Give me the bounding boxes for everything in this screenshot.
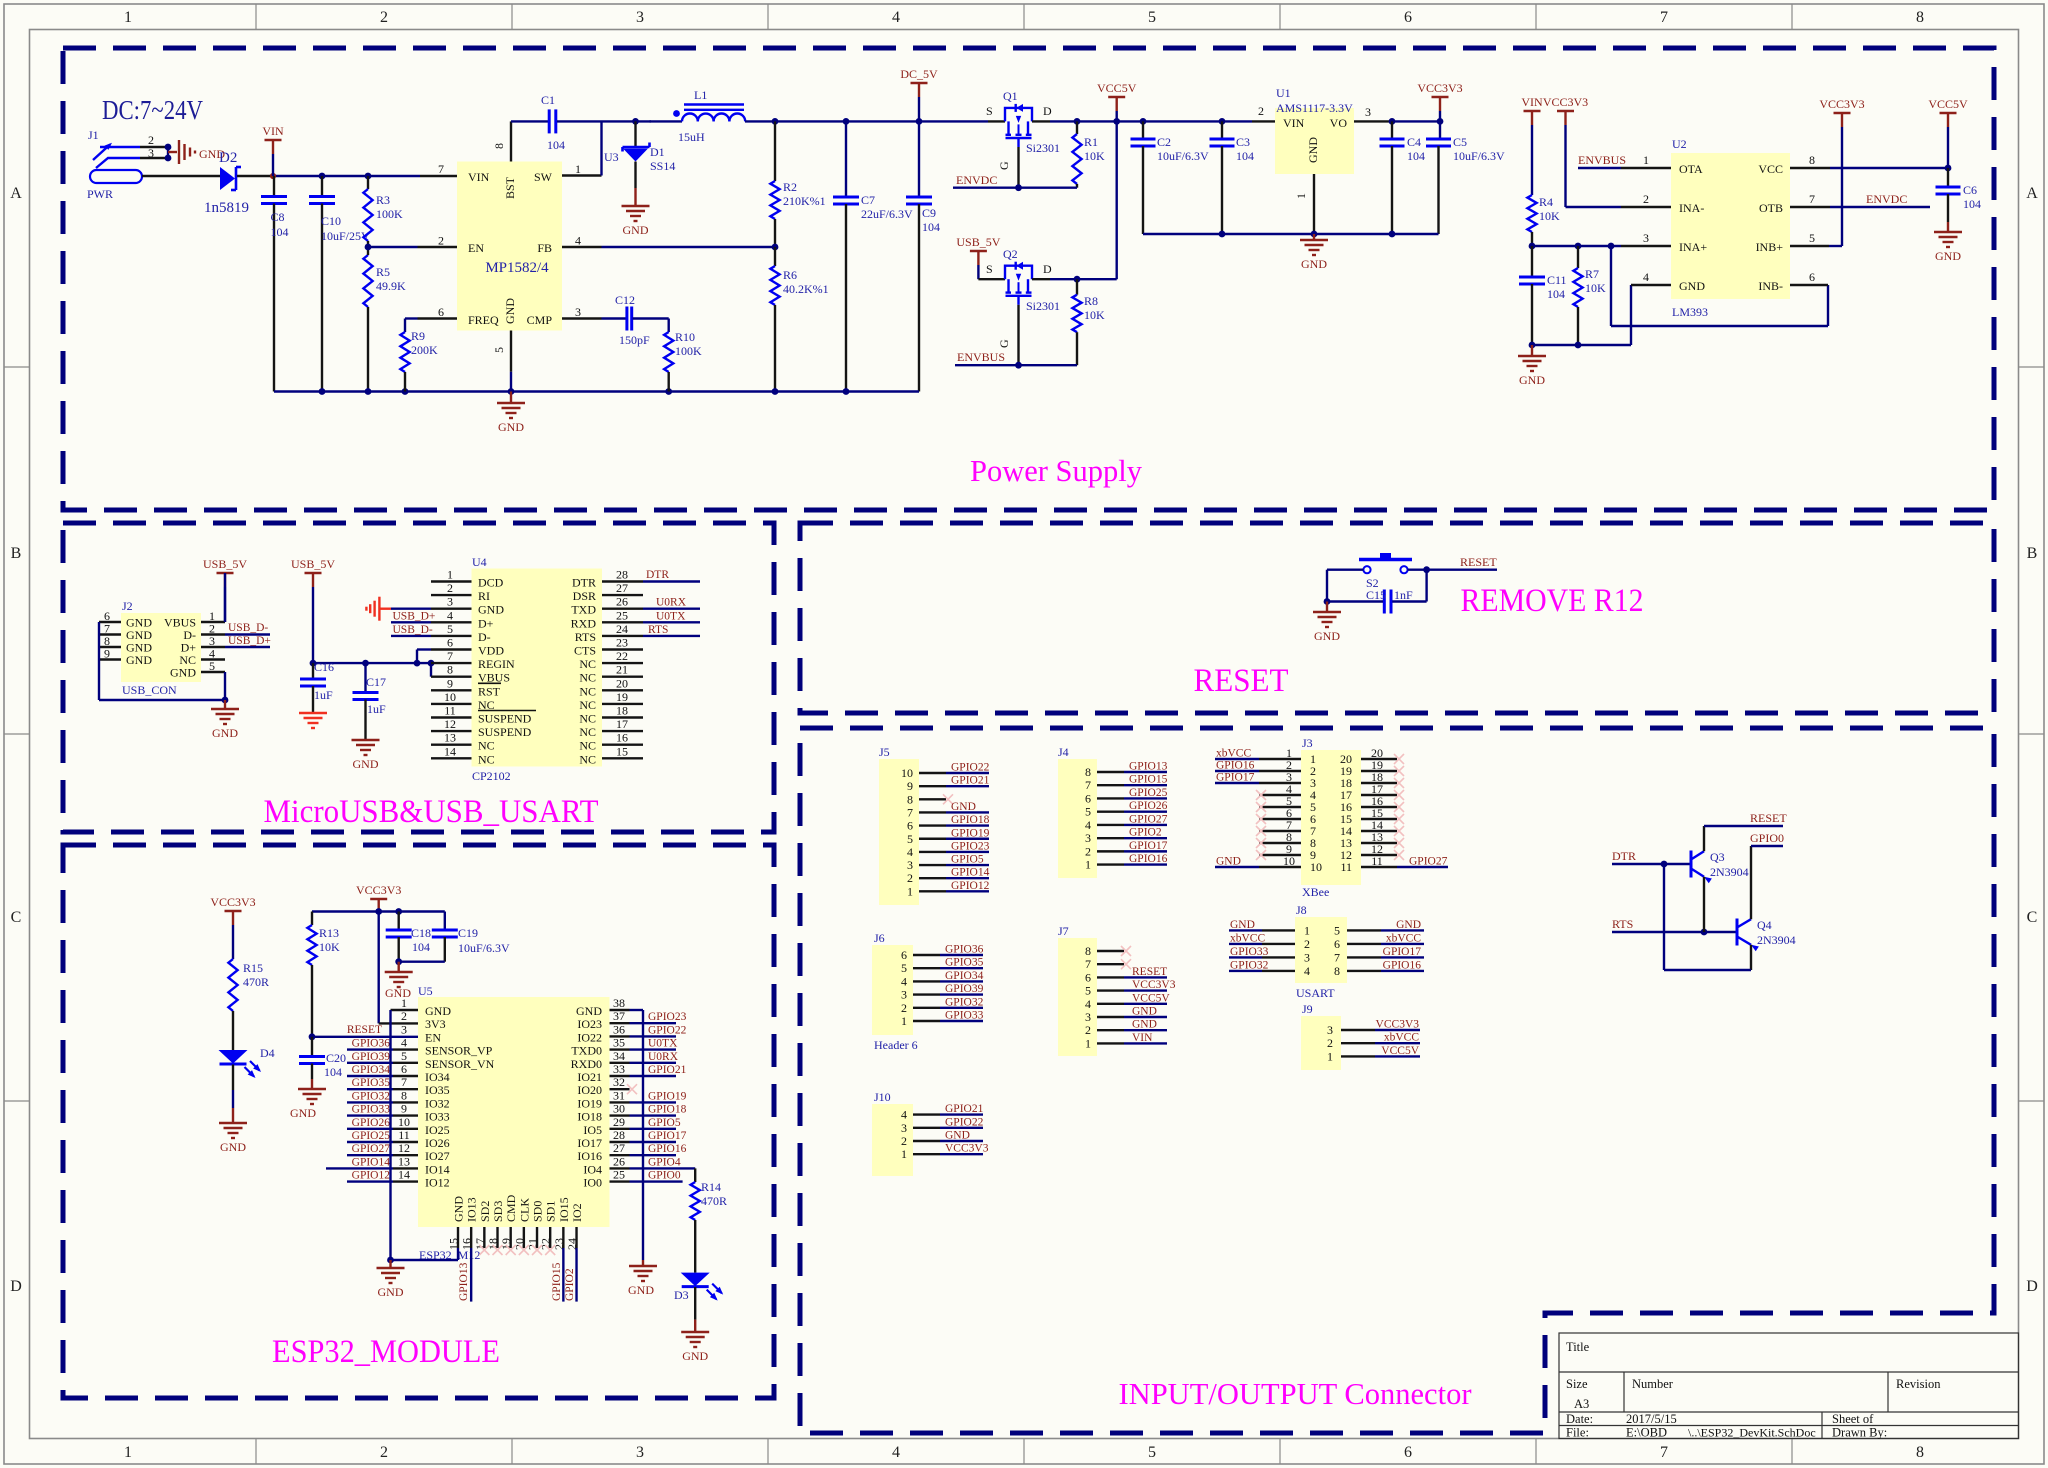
svg-text:GND: GND <box>1216 856 1241 868</box>
power port VCC3V3 (U5) <box>356 883 401 912</box>
svg-text:IO35: IO35 <box>425 1083 450 1097</box>
svg-text:C: C <box>11 909 22 926</box>
svg-text:USB_CON: USB_CON <box>122 683 177 697</box>
resistor R8 10K <box>1072 279 1105 365</box>
connector J8 USART <box>1229 903 1424 1000</box>
svg-text:IO5: IO5 <box>583 1123 602 1137</box>
svg-text:GND: GND <box>1301 257 1327 271</box>
svg-text:GPIO34: GPIO34 <box>352 1064 391 1076</box>
svg-text:D: D <box>10 1278 22 1295</box>
svg-text:1: 1 <box>901 1014 907 1028</box>
svg-text:C15: C15 <box>1366 588 1386 602</box>
svg-text:GPIO14: GPIO14 <box>352 1156 391 1168</box>
svg-text:3: 3 <box>1085 831 1091 845</box>
svg-text:1: 1 <box>1327 1049 1333 1063</box>
svg-text:GPIO17: GPIO17 <box>1383 946 1422 958</box>
svg-text:GND: GND <box>452 1196 466 1222</box>
svg-text:SW: SW <box>534 170 553 184</box>
svg-text:C8: C8 <box>271 210 285 224</box>
svg-text:VCC: VCC <box>1758 162 1783 176</box>
svg-text:6: 6 <box>1809 270 1815 284</box>
svg-text:6: 6 <box>438 305 444 319</box>
svg-text:J6: J6 <box>874 931 885 945</box>
svg-text:DCD: DCD <box>478 576 504 590</box>
svg-text:2: 2 <box>447 581 453 595</box>
svg-text:C4: C4 <box>1407 135 1421 149</box>
svg-text:CP2102: CP2102 <box>472 769 511 783</box>
net label RTS <box>643 624 700 636</box>
svg-text:J5: J5 <box>879 745 890 759</box>
net label GPIO5 (U5 right) <box>630 1117 681 1129</box>
ground symbol at J1 <box>179 140 225 164</box>
resistor R4 10K <box>1527 195 1560 246</box>
svg-text:Drawn By:: Drawn By: <box>1832 1426 1887 1440</box>
svg-text:GND: GND <box>1519 373 1545 387</box>
svg-text:D: D <box>1043 262 1052 276</box>
capacitor C6 104 <box>1934 168 1981 263</box>
svg-text:25: 25 <box>616 608 628 622</box>
wire: U1 ground bus <box>1143 231 1439 238</box>
svg-text:5: 5 <box>209 659 215 673</box>
net label GPIO25 (U5 left) <box>347 1130 393 1142</box>
svg-text:18: 18 <box>486 1238 500 1250</box>
svg-text:8: 8 <box>1334 964 1340 978</box>
svg-text:18: 18 <box>616 704 628 718</box>
svg-text:VCC5V: VCC5V <box>1928 97 1968 111</box>
net label GPIO12 (U5 left) <box>347 1170 393 1182</box>
svg-text:IO21: IO21 <box>577 1070 602 1084</box>
net label GPIO22 (U5 right) <box>630 1024 687 1036</box>
svg-text:GPIO36: GPIO36 <box>945 944 984 956</box>
svg-text:IO13: IO13 <box>465 1197 479 1222</box>
svg-text:GPIO12: GPIO12 <box>951 880 990 892</box>
svg-text:5: 5 <box>1334 923 1340 937</box>
power port VCC3V3 (INA-) <box>1543 95 1588 207</box>
svg-text:VO: VO <box>1330 116 1348 130</box>
svg-text:10K: 10K <box>1585 281 1606 295</box>
svg-text:FB: FB <box>537 241 552 255</box>
ground symbol J2 <box>211 700 239 740</box>
resistor R7 10K <box>1573 246 1606 345</box>
svg-text:3V3: 3V3 <box>425 1017 446 1031</box>
svg-text:VCC3V3: VCC3V3 <box>1543 95 1588 109</box>
svg-text:4: 4 <box>1304 964 1310 978</box>
svg-text:XBee: XBee <box>1302 885 1329 899</box>
svg-text:VCC3V3: VCC3V3 <box>1819 97 1864 111</box>
svg-text:R15: R15 <box>243 961 263 975</box>
wire: 3V3 rail at U5 <box>312 908 445 1023</box>
svg-text:4: 4 <box>901 974 907 988</box>
net label GPIO39 (U5 left) <box>347 1051 393 1063</box>
connector J4 <box>1058 745 1168 878</box>
svg-text:8: 8 <box>492 143 506 149</box>
resistor R6 40.2K <box>770 247 828 392</box>
svg-text:ENVDC: ENVDC <box>956 173 997 187</box>
svg-text:6: 6 <box>1404 1444 1412 1461</box>
svg-text:SD3: SD3 <box>491 1201 505 1222</box>
section box: Power Supply <box>63 48 1994 510</box>
capacitor C20 104 <box>299 1037 346 1089</box>
svg-text:VCC3V3: VCC3V3 <box>356 883 401 897</box>
svg-text:VIN: VIN <box>1132 1032 1153 1044</box>
svg-text:RXD: RXD <box>571 616 597 630</box>
svg-text:EN: EN <box>468 241 484 255</box>
svg-text:GPIO22: GPIO22 <box>951 762 990 774</box>
svg-text:3: 3 <box>901 988 907 1002</box>
svg-text:Sheet of: Sheet of <box>1832 1412 1874 1426</box>
comparator U2 LM393 <box>1621 137 1830 319</box>
svg-text:VCC3V3: VCC3V3 <box>210 895 255 909</box>
svg-text:5: 5 <box>401 1049 407 1063</box>
net label GPIO16 (U5 right) <box>630 1143 687 1155</box>
inductor L1 15uH <box>650 88 746 144</box>
svg-text:4: 4 <box>901 1108 907 1122</box>
svg-text:AMS1117-3.3V: AMS1117-3.3V <box>1276 101 1353 115</box>
svg-text:GND: GND <box>1132 1019 1157 1031</box>
svg-text:4: 4 <box>907 845 913 859</box>
no-connect bottom pin 19 <box>506 1245 516 1255</box>
svg-text:A: A <box>2026 185 2038 202</box>
svg-text:CTS: CTS <box>574 644 596 658</box>
svg-text:GPIO16: GPIO16 <box>1129 853 1168 865</box>
svg-text:1: 1 <box>124 1444 132 1461</box>
svg-text:6: 6 <box>401 1062 407 1076</box>
svg-text:C6: C6 <box>1963 183 1977 197</box>
svg-text:J4: J4 <box>1058 745 1069 759</box>
wire: U5 pin38 ground <box>630 1010 644 1266</box>
svg-text:IO4: IO4 <box>583 1162 602 1176</box>
svg-text:8: 8 <box>1085 944 1091 958</box>
svg-text:SENSOR_VN: SENSOR_VN <box>425 1057 495 1071</box>
svg-text:USB_D-: USB_D- <box>228 622 268 634</box>
wire: pin15 gnd stub <box>457 1248 459 1260</box>
svg-text:R14: R14 <box>701 1180 721 1194</box>
svg-text:D-: D- <box>478 630 491 644</box>
capacitor C18 104 <box>386 912 431 966</box>
power port USB_5V (Q2) <box>956 235 1000 279</box>
svg-text:SD2: SD2 <box>478 1201 492 1222</box>
wire: INA+ divider node <box>1529 243 1621 250</box>
svg-text:GND: GND <box>220 1140 246 1154</box>
svg-text:35: 35 <box>613 1036 625 1050</box>
svg-text:IO25: IO25 <box>425 1123 450 1137</box>
svg-text:8: 8 <box>1809 153 1815 167</box>
resistor R3 100K <box>363 176 403 247</box>
svg-text:ENVBUS: ENVBUS <box>957 350 1005 364</box>
svg-text:Header 6: Header 6 <box>874 1038 918 1052</box>
svg-text:DTR: DTR <box>646 569 669 581</box>
no-connect bottom pin 22 <box>545 1245 555 1255</box>
net label USB_D+ (CP2102) <box>391 610 435 622</box>
svg-text:4: 4 <box>892 1444 900 1461</box>
svg-text:INA-: INA- <box>1679 201 1704 215</box>
svg-text:SS14: SS14 <box>650 159 675 173</box>
svg-text:12: 12 <box>444 717 456 731</box>
svg-text:GPIO17: GPIO17 <box>1129 840 1168 852</box>
capacitor C15 1nF <box>1366 588 1413 614</box>
resistor R15 470R <box>228 959 269 1050</box>
svg-text:30: 30 <box>613 1102 625 1116</box>
svg-text:GPIO18: GPIO18 <box>648 1104 687 1116</box>
svg-text:GND: GND <box>478 603 504 617</box>
power port DC_5V <box>900 67 938 121</box>
svg-text:6: 6 <box>1085 970 1091 984</box>
svg-text:100K: 100K <box>675 344 702 358</box>
svg-text:4: 4 <box>892 9 900 26</box>
power port USB_5V (J2) <box>203 557 247 622</box>
power port VIN (comparator) <box>1521 95 1543 195</box>
svg-text:G: G <box>997 339 1011 348</box>
svg-text:104: 104 <box>547 138 565 152</box>
svg-text:U0RX: U0RX <box>656 597 687 609</box>
net label U0TX (U5 right) <box>630 1038 679 1050</box>
svg-text:S: S <box>986 104 993 118</box>
svg-text:D+: D+ <box>478 616 494 630</box>
svg-text:J3: J3 <box>1302 736 1313 750</box>
svg-text:B: B <box>11 545 22 562</box>
svg-text:DTR: DTR <box>572 576 596 590</box>
svg-text:Q3: Q3 <box>1710 850 1725 864</box>
svg-text:7: 7 <box>401 1075 407 1089</box>
svg-text:NC: NC <box>579 671 596 685</box>
svg-text:GND: GND <box>353 757 379 771</box>
svg-text:13: 13 <box>398 1154 410 1168</box>
svg-text:11: 11 <box>398 1128 410 1142</box>
svg-text:VCC5V: VCC5V <box>1132 992 1170 1004</box>
svg-text:GPIO0: GPIO0 <box>1750 831 1784 845</box>
connector J9 <box>1301 1002 1420 1070</box>
svg-text:GPIO18: GPIO18 <box>951 814 990 826</box>
svg-text:INB+: INB+ <box>1756 240 1784 254</box>
svg-text:5: 5 <box>1085 984 1091 998</box>
svg-text:10: 10 <box>1283 854 1295 868</box>
svg-text:J2: J2 <box>122 599 133 613</box>
net label USB_D+ (J2) <box>225 635 271 647</box>
connector J5 <box>879 745 990 905</box>
svg-text:GPIO39: GPIO39 <box>352 1051 391 1063</box>
svg-text:R13: R13 <box>319 926 339 940</box>
no-connect bottom pin 21 <box>532 1245 542 1255</box>
svg-text:xbVCC: xbVCC <box>1216 748 1251 760</box>
svg-text:10: 10 <box>901 766 913 780</box>
svg-text:J8: J8 <box>1296 903 1307 917</box>
net label DTR <box>1612 849 1691 867</box>
svg-text:GPIO12: GPIO12 <box>352 1170 391 1182</box>
svg-text:1: 1 <box>907 884 913 898</box>
svg-text:VCC5V: VCC5V <box>1097 81 1137 95</box>
svg-text:GPIO23: GPIO23 <box>648 1011 687 1023</box>
power port VCC5V (U2) <box>1928 97 1968 168</box>
svg-text:GPIO36: GPIO36 <box>352 1038 391 1050</box>
svg-text:VCC3V3: VCC3V3 <box>1417 81 1462 95</box>
svg-text:R9: R9 <box>411 329 425 343</box>
svg-text:GND: GND <box>1935 249 1961 263</box>
ground symbol S2 <box>1313 602 1341 644</box>
net label U0RX <box>643 597 700 609</box>
svg-text:150pF: 150pF <box>619 333 650 347</box>
svg-text:1: 1 <box>1304 923 1310 937</box>
svg-text:U0RX: U0RX <box>648 1051 679 1063</box>
svg-text:IO0: IO0 <box>583 1176 602 1190</box>
svg-text:IO18: IO18 <box>577 1110 602 1124</box>
svg-text:IO26: IO26 <box>425 1136 450 1150</box>
svg-text:U5: U5 <box>418 984 433 998</box>
svg-text:IO32: IO32 <box>425 1096 450 1110</box>
svg-text:3: 3 <box>1643 231 1649 245</box>
svg-text:3: 3 <box>1304 950 1310 964</box>
svg-text:GPIO32: GPIO32 <box>1230 959 1269 971</box>
svg-text:C2: C2 <box>1157 135 1171 149</box>
svg-text:GPIO22: GPIO22 <box>648 1024 687 1036</box>
wire: U5 pin1 ground <box>387 1010 458 1268</box>
svg-text:2017/5/15: 2017/5/15 <box>1626 1412 1677 1426</box>
svg-text:11: 11 <box>444 704 456 718</box>
svg-text:210K%1: 210K%1 <box>783 194 826 208</box>
svg-text:28: 28 <box>613 1128 625 1142</box>
capacitor C9 104 <box>906 121 940 391</box>
svg-text:DSR: DSR <box>573 589 596 603</box>
net label USB_D- (CP2102) <box>391 624 433 636</box>
wire: reset loop <box>1324 566 1497 605</box>
svg-text:R6: R6 <box>783 268 797 282</box>
net label ENVDC (U2 out) <box>1830 192 1930 207</box>
svg-text:R8: R8 <box>1084 294 1098 308</box>
svg-text:104: 104 <box>1547 287 1565 301</box>
svg-text:CMD: CMD <box>504 1194 518 1222</box>
svg-text:U1: U1 <box>1276 86 1291 100</box>
net label ENVBUS (U2 in) <box>1578 153 1626 168</box>
svg-text:IO19: IO19 <box>577 1096 602 1110</box>
svg-text:Si2301: Si2301 <box>1026 141 1060 155</box>
svg-text:GPIO39: GPIO39 <box>945 983 984 995</box>
svg-text:IO15: IO15 <box>557 1197 571 1222</box>
net label GPIO4 (U5) <box>630 1156 696 1182</box>
svg-text:9: 9 <box>401 1102 407 1116</box>
svg-text:3: 3 <box>636 1444 644 1461</box>
wire: INA- to VCC3V3 <box>1566 206 1622 208</box>
svg-text:2: 2 <box>901 1134 907 1148</box>
wire: FB node <box>602 244 779 251</box>
IC U4 CP2102 <box>431 555 643 783</box>
svg-text:USB_5V: USB_5V <box>291 557 335 571</box>
svg-text:G: G <box>997 161 1011 170</box>
svg-text:R10: R10 <box>675 330 695 344</box>
wire: U1 output <box>1389 118 1444 125</box>
svg-text:2: 2 <box>901 1001 907 1015</box>
svg-text:U0TX: U0TX <box>648 1038 678 1050</box>
svg-text:2N3904: 2N3904 <box>1757 933 1796 947</box>
ground symbol C20 <box>290 1089 326 1120</box>
net label GPIO36 (U5 left) <box>347 1038 393 1050</box>
svg-text:C3: C3 <box>1236 135 1250 149</box>
svg-text:CLK: CLK <box>517 1198 531 1222</box>
svg-text:100K: 100K <box>376 207 403 221</box>
svg-text:GPIO32: GPIO32 <box>945 996 984 1008</box>
ground symbol CP2102 pin3 (red, sideways) <box>366 597 431 621</box>
svg-text:GND: GND <box>1306 137 1320 163</box>
svg-text:USB_5V: USB_5V <box>203 557 247 571</box>
svg-text:MicroUSB&USB_USART: MicroUSB&USB_USART <box>264 794 599 830</box>
svg-text:26: 26 <box>616 595 628 609</box>
svg-text:GPIO16: GPIO16 <box>1383 959 1422 971</box>
svg-text:7: 7 <box>1809 192 1815 206</box>
svg-text:1: 1 <box>1643 153 1649 167</box>
svg-text:GPIO0: GPIO0 <box>648 1170 681 1182</box>
svg-text:3: 3 <box>907 858 913 872</box>
svg-text:104: 104 <box>1963 197 1981 211</box>
wire: boost node to inductor <box>602 120 652 122</box>
svg-text:200K: 200K <box>411 343 438 357</box>
resistor R10 100K <box>664 319 702 392</box>
svg-text:GND: GND <box>628 1283 654 1297</box>
svg-text:C12: C12 <box>615 293 635 307</box>
svg-text:4: 4 <box>447 608 453 622</box>
resistor R2 210K <box>770 121 825 247</box>
net label RESET (Q3) <box>1704 811 1787 826</box>
svg-text:GND: GND <box>290 1106 316 1120</box>
svg-text:\..\ESP32_DevKit.SchDoc: \..\ESP32_DevKit.SchDoc <box>1688 1426 1816 1440</box>
svg-text:GPIO16: GPIO16 <box>648 1143 687 1155</box>
svg-text:VCC3V3: VCC3V3 <box>945 1143 989 1155</box>
svg-text:GND: GND <box>945 1130 970 1142</box>
net label U0RX (U5 right) <box>630 1051 679 1063</box>
svg-text:GND: GND <box>1396 919 1421 931</box>
svg-text:2: 2 <box>438 234 444 248</box>
svg-text:DC:7~24V: DC:7~24V <box>102 95 203 125</box>
svg-text:2: 2 <box>1085 844 1091 858</box>
wire: 5V switch rail <box>745 118 988 125</box>
svg-text:A3: A3 <box>1574 1397 1589 1411</box>
svg-text:1: 1 <box>575 162 581 176</box>
power port VCC3V3 (U1 out) <box>1417 81 1462 121</box>
svg-text:8: 8 <box>1085 765 1091 779</box>
section box: RESET <box>800 523 1994 713</box>
svg-text:EN: EN <box>425 1030 441 1044</box>
svg-text:GPIO23: GPIO23 <box>951 840 990 852</box>
section box: INPUT/OUTPUT Connector <box>800 728 1994 1433</box>
svg-text:J1: J1 <box>88 128 99 142</box>
svg-text:SD1: SD1 <box>544 1201 558 1222</box>
svg-text:U2: U2 <box>1672 137 1687 151</box>
svg-text:10uF/25V: 10uF/25V <box>321 229 370 243</box>
svg-text:A: A <box>10 185 22 202</box>
capacitor C2 10uF/6.3V <box>1131 121 1210 234</box>
svg-text:28: 28 <box>616 568 628 582</box>
svg-text:SENSOR_VP: SENSOR_VP <box>425 1044 493 1058</box>
svg-text:GND: GND <box>378 1285 404 1299</box>
svg-text:INA+: INA+ <box>1679 240 1707 254</box>
svg-text:File:: File: <box>1566 1426 1589 1440</box>
svg-text:2: 2 <box>1258 104 1264 118</box>
svg-text:GPIO21: GPIO21 <box>951 775 990 787</box>
svg-text:8: 8 <box>1916 9 1924 26</box>
net label RTS <box>1612 917 1737 935</box>
ground symbol D4 <box>219 1123 247 1154</box>
net label GPIO27 (U5 left) <box>347 1143 393 1155</box>
svg-text:7: 7 <box>1334 950 1340 964</box>
svg-text:USB_5V: USB_5V <box>956 235 1000 249</box>
svg-text:IO2: IO2 <box>570 1203 584 1222</box>
svg-text:8: 8 <box>447 663 453 677</box>
svg-text:RTS: RTS <box>1612 917 1633 931</box>
svg-text:ESP32_MODULE: ESP32_MODULE <box>272 1334 500 1370</box>
capacitor C8 104 <box>261 176 289 392</box>
svg-text:J10: J10 <box>874 1090 891 1104</box>
wire: EN node <box>365 244 457 251</box>
svg-text:GND: GND <box>682 1349 708 1363</box>
svg-text:24: 24 <box>616 622 628 636</box>
svg-text:C18: C18 <box>411 926 431 940</box>
